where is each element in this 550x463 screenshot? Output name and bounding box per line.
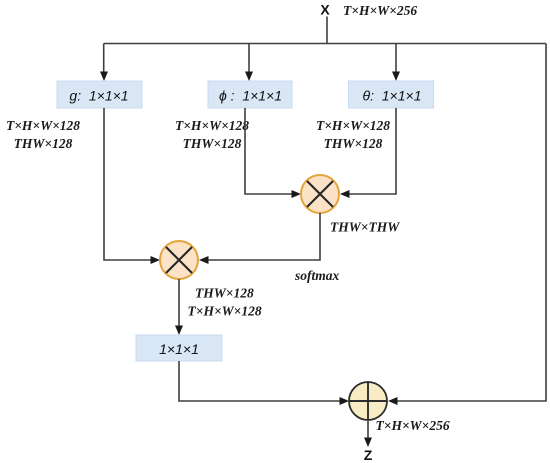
wire multiply circle 2 down to 1x1x1 box [178, 279, 180, 326]
svg-text:Z: Z [364, 447, 373, 463]
svg-text:θ: 1×1×1: θ: 1×1×1 [363, 88, 422, 104]
svg-text:g: 1×1×1: g: 1×1×1 [69, 88, 128, 104]
svg-text:T×H×W×128: T×H×W×128 [188, 304, 262, 319]
wire g box down and right into multiply circle 2 [104, 108, 151, 260]
multiply circle 1 (matmul theta x phi) [301, 175, 339, 213]
wire multiply circle 1 down and left into multiply circle 2 [208, 213, 320, 260]
wire from X down to header [326, 17, 328, 44]
wire drop to g box with arrow [103, 44, 105, 73]
svg-text:THW×128: THW×128 [14, 136, 73, 151]
wire right side long branch to plus circle [397, 44, 546, 402]
wire theta box down and left into multiply circle 1 [349, 108, 396, 194]
wire drop to theta box with arrow [395, 44, 397, 73]
multiply circle 2 (matmul with g) [160, 241, 198, 279]
box phi 1x1x1 [208, 81, 292, 108]
svg-text:ϕ : 1×1×1: ϕ : 1×1×1 [219, 88, 282, 104]
svg-text:THW×128: THW×128 [195, 286, 254, 301]
wire drop to phi box with arrow [248, 44, 250, 73]
svg-text:THW×THW: THW×THW [330, 220, 400, 235]
svg-text:X: X [320, 2, 330, 18]
box theta 1x1x1 [349, 81, 434, 108]
svg-text:THW×128: THW×128 [324, 136, 383, 151]
wire header horizontal [104, 43, 546, 45]
wire 1x1x1 box down and right into plus circle [179, 361, 340, 401]
svg-text:T×H×W×128: T×H×W×128 [6, 118, 80, 133]
svg-text:T×H×W×128: T×H×W×128 [175, 118, 249, 133]
svg-text:softmax: softmax [294, 268, 340, 283]
svg-text:T×H×W×128: T×H×W×128 [316, 118, 390, 133]
svg-text:1×1×1: 1×1×1 [159, 341, 199, 357]
svg-text:T×H×W×256: T×H×W×256 [376, 418, 450, 433]
svg-text:THW×128: THW×128 [183, 136, 242, 151]
wire phi box down and right into multiply circle 1 [245, 108, 292, 194]
svg-text:T×H×W×256: T×H×W×256 [343, 3, 417, 18]
plus circle (residual add) [349, 382, 387, 420]
box g 1x1x1 [57, 81, 142, 108]
box 1x1x1 output conv [136, 335, 222, 361]
wire plus circle down to Z with arrow [367, 420, 369, 438]
